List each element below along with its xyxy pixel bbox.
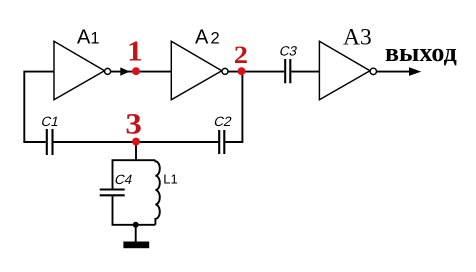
svg-text:C3: C3 — [278, 43, 299, 58]
svg-text:C1: C1 — [40, 114, 61, 129]
svg-text:выход: выход — [385, 38, 457, 67]
svg-text:L1: L1 — [163, 172, 177, 187]
svg-text:A2: A2 — [195, 27, 220, 49]
svg-text:3: 3 — [125, 107, 141, 140]
svg-text:C2: C2 — [213, 114, 234, 129]
svg-text:2: 2 — [234, 41, 248, 69]
svg-text:A3: A3 — [343, 24, 372, 50]
svg-text:1: 1 — [127, 37, 142, 67]
svg-text:A1: A1 — [77, 27, 100, 49]
